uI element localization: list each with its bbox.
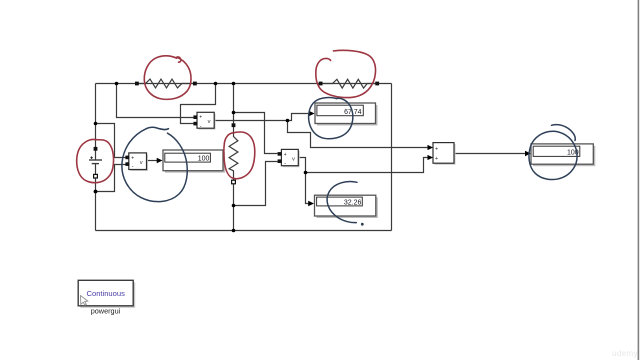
red annotation circle around R1 xyxy=(144,56,191,100)
wire battery - to VM2 - input xyxy=(96,165,126,192)
wire battery - down to bottom rail xyxy=(95,175,97,231)
wire branch to Display1 xyxy=(288,114,309,121)
svg-text:+: + xyxy=(284,152,287,158)
window edge line right xyxy=(638,0,640,360)
wire node B to VM1 - input xyxy=(181,84,216,124)
blue annotation tail above D4 xyxy=(552,125,576,141)
mouse cursor xyxy=(81,296,88,306)
wire right vertical from R2 to bottom rail xyxy=(391,84,393,231)
resistor R3 xyxy=(229,127,238,180)
battery B1 (DC source) xyxy=(89,147,102,178)
wire branch to Add input 1 xyxy=(288,121,428,148)
display D4 value 100 xyxy=(525,144,595,166)
wire R3 bottom to bottom rail xyxy=(233,184,235,231)
display D1 value 67.74 xyxy=(309,103,378,126)
svg-text:100: 100 xyxy=(198,156,210,163)
blue annotation circle around D4 xyxy=(529,131,577,179)
svg-text:+: + xyxy=(131,155,134,161)
wire branch to Add input 2 xyxy=(306,158,428,173)
svg-text:-: - xyxy=(132,164,134,170)
svg-text:Continuous: Continuous xyxy=(86,289,125,298)
svg-text:udemy: udemy xyxy=(612,349,638,358)
powergui block xyxy=(78,280,135,308)
op-amp U2 voltage measurement VM2 xyxy=(125,153,148,171)
blue annotation arc around D3 xyxy=(327,182,357,223)
wire VM3 output xyxy=(298,158,305,173)
resistor R2 xyxy=(322,79,375,88)
svg-text:-: - xyxy=(284,161,286,167)
wire VM1 output xyxy=(214,120,287,122)
wire R3 top node to VM3 + input xyxy=(234,113,278,154)
svg-text:+: + xyxy=(435,156,438,162)
wire battery + to VM2 + input xyxy=(96,124,126,158)
wire top rail xyxy=(96,83,392,85)
svg-text:powergui: powergui xyxy=(91,307,121,316)
wire VM2 output to Display2 xyxy=(147,160,159,162)
svg-text:32.26: 32.26 xyxy=(344,200,362,207)
svg-text:-: - xyxy=(200,123,202,129)
red annotation circle around R3 xyxy=(224,132,255,179)
wire branch to Display3 xyxy=(306,173,310,204)
display D3 value 32.26 xyxy=(308,195,378,218)
svg-text:v: v xyxy=(208,119,211,125)
adder U4 Add block xyxy=(428,143,456,165)
wire Add output to Display4 xyxy=(454,153,526,155)
op-amp U1 voltage measurement VM1 xyxy=(193,112,215,129)
op-amp U3 voltage measurement VM3 xyxy=(278,149,300,167)
red annotation circle around battery xyxy=(77,139,114,182)
red annotation circle around R2 xyxy=(316,50,376,97)
resistor R1 xyxy=(139,79,193,88)
display D2 value 100 xyxy=(157,150,225,173)
node junction dots xyxy=(94,82,308,233)
wire node B to R3 top xyxy=(233,84,235,124)
wire node A to VM1 + input xyxy=(117,84,194,118)
blue annotation circle around D1 xyxy=(309,98,353,139)
svg-text:v: v xyxy=(140,160,143,166)
svg-text:v: v xyxy=(292,156,295,162)
blue annotation pen dot near D3 xyxy=(361,223,364,226)
blue annotation circle around VM2 and D2 xyxy=(122,127,187,201)
wire left vertical to battery + xyxy=(95,84,97,148)
wire bottom node to VM3 - input xyxy=(234,162,278,206)
svg-text:+: + xyxy=(435,146,438,152)
wire bottom rail xyxy=(96,230,392,232)
svg-text:+: + xyxy=(199,115,202,121)
